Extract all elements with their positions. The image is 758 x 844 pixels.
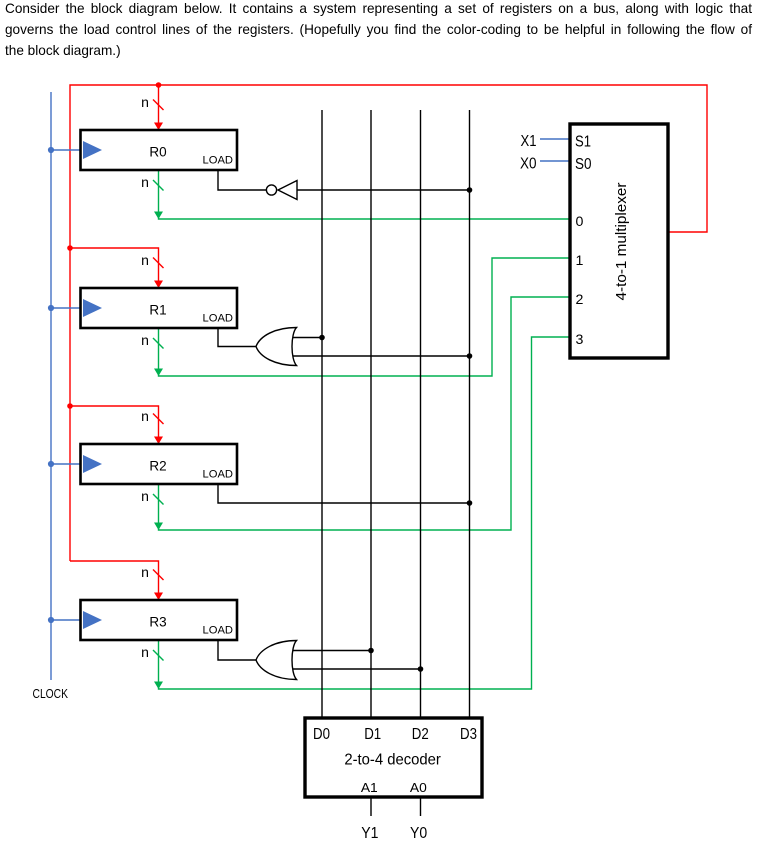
wire X1 select stub [540, 138, 570, 140]
svg-text:n: n [141, 174, 149, 190]
svg-text:Y0: Y0 [410, 825, 428, 842]
label n R0 output with width tick [141, 174, 163, 191]
label n R3 output with width tick [141, 644, 163, 661]
junction clock R0 [48, 147, 54, 153]
svg-text:A0: A0 [410, 780, 427, 795]
label n R3 input with width tick [141, 564, 163, 580]
svg-text:D1: D1 [364, 726, 381, 743]
svg-text:A1: A1 [361, 780, 378, 795]
wire CLOCK vertical bus [50, 92, 52, 680]
junction red bus at R2 branch [67, 403, 73, 409]
register R2 [81, 444, 238, 484]
svg-text:Y1: Y1 [361, 825, 378, 842]
label Y1 [361, 825, 378, 842]
svg-text:LOAD: LOAD [203, 624, 233, 636]
label n R1 input with width tick [141, 252, 163, 268]
wire green R0 output to mux input 0 [154, 170, 570, 219]
wire R2 LOAD to D3 [218, 484, 470, 503]
register R1 [81, 288, 238, 328]
wire red R0 data input drop [154, 85, 163, 130]
junction red top at R0 drop [156, 82, 162, 88]
svg-text:4-to-1 multiplexer: 4-to-1 multiplexer [614, 182, 630, 300]
label X0 [520, 156, 537, 173]
svg-text:S0: S0 [575, 156, 592, 173]
register R3 [81, 600, 238, 640]
junction red bus at R1 branch [67, 245, 73, 251]
svg-text:n: n [141, 644, 149, 660]
inverter U1 (R0 load) [266, 181, 297, 200]
wire A0 input [420, 797, 422, 816]
junction D3 R2 load [467, 500, 473, 506]
svg-text:D3: D3 [460, 726, 477, 743]
junction D2 OR2 input [418, 666, 424, 672]
label n R0 input with width tick [141, 94, 163, 110]
svg-text:R3: R3 [149, 614, 166, 629]
wire clock to R1 [51, 307, 80, 309]
svg-text:R2: R2 [149, 458, 166, 473]
svg-text:X0: X0 [520, 156, 537, 173]
wire OR1 input B from D3 [291, 355, 470, 357]
bus line D0 [321, 110, 323, 718]
wire R1 LOAD to OR gate [218, 328, 257, 347]
label CLOCK [33, 686, 69, 701]
svg-text:LOAD: LOAD [203, 312, 233, 324]
wire X0 select stub [540, 160, 570, 162]
wire inverter input from D3 [297, 189, 470, 191]
wire R0 LOAD to inverter [218, 170, 266, 190]
wire clock to R3 [51, 619, 80, 621]
svg-text:D0: D0 [313, 726, 330, 743]
bus line D2 [420, 110, 422, 718]
bus line D3 [469, 110, 471, 718]
label X1 [521, 133, 537, 150]
svg-text:2-to-4 decoder: 2-to-4 decoder [344, 752, 441, 769]
svg-text:D2: D2 [412, 726, 429, 743]
svg-text:1: 1 [576, 253, 584, 269]
svg-text:n: n [141, 488, 149, 504]
wire green R1 output to mux input 1 [154, 258, 570, 376]
wire clock to R0 [51, 149, 80, 151]
label n R2 input with width tick [141, 408, 163, 424]
svg-text:0: 0 [576, 214, 584, 230]
wire clock to R2 [51, 463, 80, 465]
register R0 [81, 130, 238, 170]
label Y0 [410, 825, 428, 842]
svg-text:n: n [141, 94, 149, 110]
junction D3 inverter input [467, 187, 473, 193]
junction D3 OR1 input [467, 353, 473, 359]
svg-text:n: n [141, 332, 149, 348]
or-gate U2 (R1 load) [256, 328, 297, 366]
junction clock R1 [48, 305, 54, 311]
svg-text:S1: S1 [575, 134, 591, 151]
wire A1 input [370, 797, 372, 816]
label n R1 output with width tick [141, 332, 163, 349]
wire R3 LOAD to OR gate [218, 640, 257, 660]
or-gate U3 (R3 load) [256, 641, 297, 680]
wire OR1 input A from D0 [291, 337, 322, 339]
decoder U5 [305, 718, 482, 797]
junction clock R3 [48, 617, 54, 623]
svg-text:2: 2 [576, 292, 584, 308]
wire green R3 output to mux input 3 [154, 337, 570, 689]
wire OR2 input B from D2 [291, 668, 421, 670]
svg-text:LOAD: LOAD [203, 154, 233, 166]
svg-text:n: n [141, 408, 149, 424]
junction D0 OR1 input [319, 335, 325, 341]
wire red R3 branch [70, 561, 163, 600]
svg-text:n: n [141, 252, 149, 268]
svg-text:X1: X1 [521, 133, 537, 150]
junction clock R2 [48, 461, 54, 467]
multiplexer U4 [570, 124, 668, 358]
wire red feedback bus (mux output to register inputs) [70, 85, 707, 561]
junction D1 OR2 input [368, 648, 374, 654]
svg-text:CLOCK: CLOCK [33, 686, 69, 701]
svg-text:3: 3 [576, 332, 584, 348]
bus line D1 [370, 110, 372, 718]
wire green R2 output to mux input 2 [154, 297, 570, 530]
svg-text:R0: R0 [149, 144, 166, 159]
wire red R1 branch [70, 248, 163, 288]
label n R2 output with width tick [141, 488, 163, 505]
wire red R2 branch [70, 406, 163, 444]
wire OR2 input A from D1 [291, 650, 371, 652]
svg-text:LOAD: LOAD [203, 468, 233, 480]
svg-text:n: n [141, 564, 149, 580]
svg-text:R1: R1 [149, 302, 166, 317]
